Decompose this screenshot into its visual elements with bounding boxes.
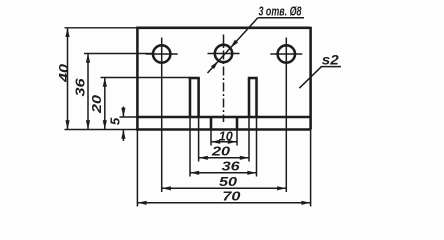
svg-text:50: 50 [219,174,238,189]
dim line 20 vertical [104,78,106,130]
extension line for dim 36 at hole centerline [84,53,152,55]
leader line for 3 holes dia 8 through hole 2 [208,18,258,73]
svg-text:20: 20 [211,144,231,159]
dim line 70 [137,202,310,204]
plate top edge with left extension for dim 40 [65,27,138,29]
hole 2 horizontal centerline [208,53,240,55]
plate bottom edge with left extension [65,129,138,131]
extension line from hole 3 center down to dim 50 [285,71,287,193]
hole 3 [278,45,295,62]
dim line 36 [190,172,257,174]
extension lines slot outer walls down to dim 36 [189,117,191,177]
extension line for dim 20 at slot top [101,77,191,79]
extension line plate left edge down to dim 70 [136,130,138,207]
dim line 36 vertical [87,54,89,130]
svg-text:36: 36 [222,159,241,174]
leader line s2 [299,67,321,89]
svg-text:5: 5 [107,117,122,125]
svg-text:36: 36 [72,78,87,97]
plate right edge [309,27,312,130]
hole 2 [215,45,232,62]
label shelf [258,17,304,19]
svg-text:10: 10 [219,128,234,143]
svg-text:40: 40 [56,63,71,83]
dim line 40 [67,28,69,130]
hole 2 vertical dash-dot centerline [223,35,225,123]
dim line 50 [162,187,287,189]
extension lines slot inner walls down to dim 20 [198,117,200,162]
tab sides between step line and bottom edge [210,117,213,131]
svg-text:s2: s2 [322,52,339,68]
hole 3 centerlines [270,53,302,55]
svg-text:20: 20 [89,94,104,114]
svg-text:70: 70 [222,188,241,203]
dim line 10 [211,141,237,143]
hole 1 centerlines [146,53,178,55]
hole 1 [153,45,170,62]
step line 5 above bottom edge with left extension [120,116,138,118]
dim line 20 [199,157,249,159]
left slot [189,78,192,117]
extension line plate right edge down to dim 70 [310,130,312,207]
extension line from hole 1 center down to dim 50 [161,71,163,193]
plate left edge [136,28,139,130]
extension lines tab sides down to dim 10 [210,130,212,146]
s2 underline [321,66,342,68]
right slot [248,78,251,117]
svg-text:3 отв. Ø8: 3 отв. Ø8 [259,3,303,18]
dim line 5 with outside arrows [122,107,124,118]
